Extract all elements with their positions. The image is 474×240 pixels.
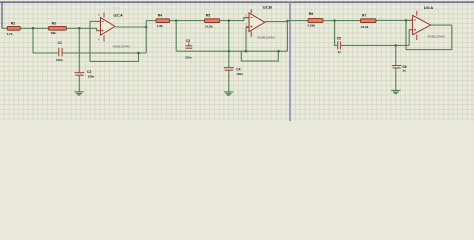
wire to R8 xyxy=(287,20,308,22)
ground 3 xyxy=(391,90,400,93)
wire U3:A +input riser xyxy=(409,30,412,46)
wire R2 to R3 xyxy=(20,27,48,29)
svg-text:4.29k: 4.29k xyxy=(307,24,315,28)
resistor R5 xyxy=(205,14,220,29)
wire U2:B output xyxy=(265,21,288,23)
ground 2 xyxy=(224,92,233,95)
node dot fbB joins fbA xyxy=(137,52,140,55)
wire C5 to +input riser (y=45.4) xyxy=(341,44,409,46)
capacitor C6 xyxy=(392,65,407,73)
svg-text:100n: 100n xyxy=(56,58,63,62)
wire feedback A (y=53) xyxy=(33,52,58,54)
op-amp U3:A xyxy=(410,5,445,40)
wire C2 to ground xyxy=(78,76,80,92)
svg-text:R8: R8 xyxy=(309,12,313,16)
capacitor C3 xyxy=(185,39,192,59)
wire node M3 to R7 xyxy=(335,20,361,22)
svg-text:R2: R2 xyxy=(11,21,15,25)
svg-text:39k: 39k xyxy=(51,31,56,35)
wire U3:A output xyxy=(431,24,452,26)
wire C4 branch down xyxy=(228,21,230,68)
capacitor C2 xyxy=(75,70,95,78)
svg-text:4.7k: 4.7k xyxy=(7,32,13,36)
svg-text:AD8512ARU: AD8512ARU xyxy=(113,45,131,49)
node dot C2 tap xyxy=(78,27,81,30)
wire feedback B detour (y=61.4) xyxy=(90,53,139,61)
wire output riser down to fbA2 xyxy=(286,21,288,51)
svg-text:1n: 1n xyxy=(402,68,406,72)
wire C6 branch down xyxy=(395,45,397,65)
capacitor C1 xyxy=(56,41,63,62)
op-amp U2:A xyxy=(98,6,131,49)
svg-text:13.9k: 13.9k xyxy=(361,25,369,29)
node dot +input joins fbA2 xyxy=(245,50,248,53)
node dot C4 top tap xyxy=(228,19,231,22)
svg-text:R5: R5 xyxy=(206,14,210,18)
wire C6 to ground xyxy=(395,68,397,90)
node junction R2/R3 tap xyxy=(32,27,35,30)
svg-text:U2:B: U2:B xyxy=(263,5,272,10)
node dot feedback tap xyxy=(405,19,408,22)
node dot M3 xyxy=(333,19,336,22)
node dot U2:A output xyxy=(145,26,148,29)
wire R7 to U3:A -input xyxy=(376,19,413,21)
wire input to R2 xyxy=(2,27,7,29)
wire C1 right to output riser xyxy=(63,52,146,54)
wire U2:A output xyxy=(116,26,146,28)
svg-text:R7: R7 xyxy=(362,13,366,17)
resistor R3 xyxy=(49,21,67,35)
svg-text:R4: R4 xyxy=(158,14,162,18)
svg-text:AD8512ARU: AD8512ARU xyxy=(257,35,275,39)
wire feedback B2 detour (y=61.1) xyxy=(241,51,278,61)
wire R5 to U2:B -input xyxy=(220,18,249,21)
capacitor C4 xyxy=(224,67,243,76)
op-amp U2:B xyxy=(245,5,275,40)
wire feedback riser down xyxy=(405,20,407,49)
svg-text:1.8k: 1.8k xyxy=(157,24,163,28)
ground 1 xyxy=(74,92,83,95)
node dot M xyxy=(175,19,178,22)
svg-text:C5: C5 xyxy=(337,37,341,41)
wire R3 to U2:A +input xyxy=(66,28,100,30)
wire feedback A2 (y=51.3) xyxy=(176,50,287,52)
svg-text:U2:A: U2:A xyxy=(114,13,123,18)
wire R8 to node M3 xyxy=(323,20,335,22)
wire output riser up and feedback down xyxy=(145,21,147,53)
svg-text:100n: 100n xyxy=(236,72,243,76)
resistor R2 xyxy=(7,21,21,35)
sheet border top (blue) xyxy=(0,1,474,3)
resistor R4 xyxy=(156,14,170,28)
wire U2:B +input riser xyxy=(246,27,249,51)
svg-text:R3: R3 xyxy=(52,21,56,25)
svg-text:AD8512ARU: AD8512ARU xyxy=(427,34,445,38)
svg-text:100n: 100n xyxy=(88,74,95,78)
node dot C4 crossing fbA2 xyxy=(228,50,230,52)
node dot U2:B output xyxy=(286,20,289,23)
wire C4 to ground xyxy=(228,71,230,92)
svg-text:C4: C4 xyxy=(236,67,240,71)
wire node M to R5 xyxy=(176,20,204,22)
svg-text:1n: 1n xyxy=(338,50,342,54)
wire U2:A -input to feedback riser xyxy=(90,21,100,61)
wire R4 to node M xyxy=(170,20,177,22)
resistor R8 xyxy=(307,12,323,28)
capacitor C5 xyxy=(337,37,342,54)
svg-text:U2:A: U2:A xyxy=(113,6,121,10)
node dot fbB2 joins fbA2 xyxy=(277,50,280,53)
wire output feedback loop xyxy=(406,25,452,49)
bus/border left vertical xyxy=(1,2,3,29)
background grid xyxy=(0,0,474,121)
svg-text:C3: C3 xyxy=(186,39,190,43)
resistor R7 xyxy=(361,13,377,29)
wire riser node A down xyxy=(32,28,34,53)
svg-text:C1: C1 xyxy=(58,41,62,45)
bus/border right vertical at x=290 xyxy=(289,2,291,121)
node dot C6 tap xyxy=(395,44,398,47)
wire C2 branch down xyxy=(78,28,80,72)
wire node M3 riser down to C5 xyxy=(335,21,337,46)
svg-text:U3:A: U3:A xyxy=(424,5,433,10)
svg-text:14.3k: 14.3k xyxy=(205,24,213,28)
wire to R4 xyxy=(146,20,156,22)
svg-text:220n: 220n xyxy=(185,55,192,59)
wire node M riser down xyxy=(175,21,177,52)
